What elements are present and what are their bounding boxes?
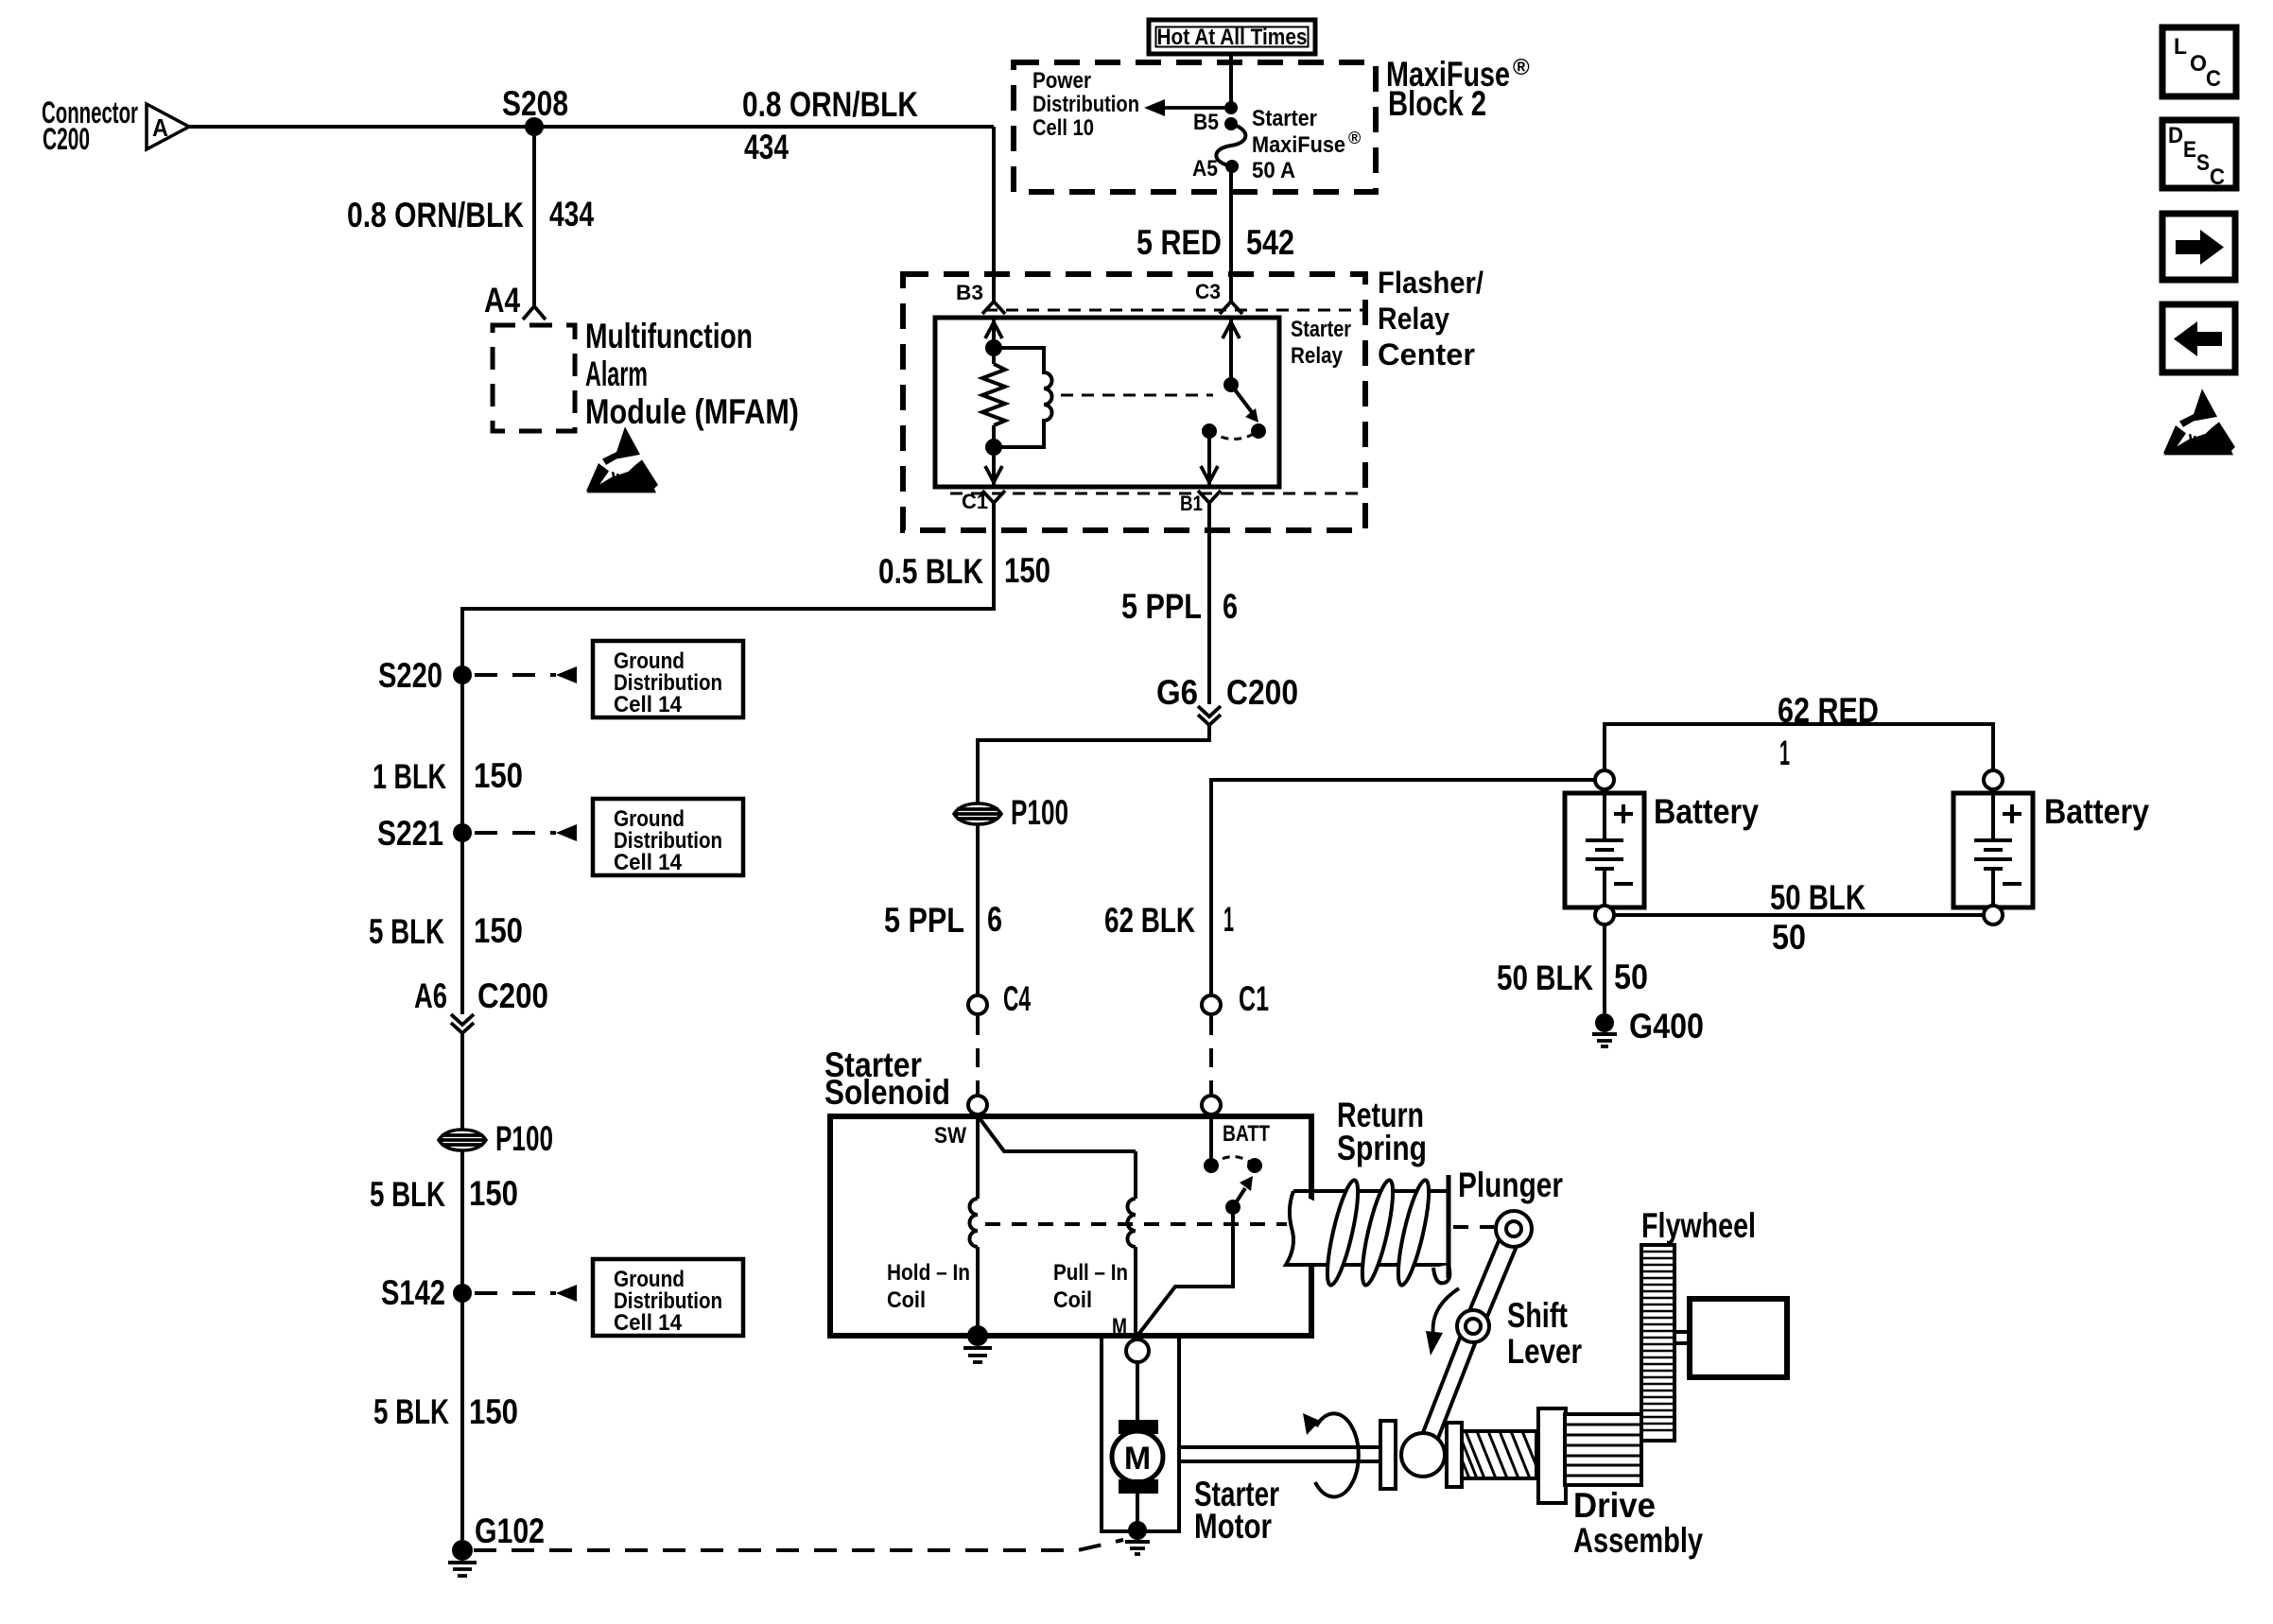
- svg-text:Motor: Motor: [1194, 1507, 1272, 1546]
- svg-text:BATT: BATT: [1223, 1121, 1270, 1147]
- svg-text:50 BLK: 50 BLK: [1770, 878, 1865, 917]
- svg-text:5 PPL: 5 PPL: [884, 901, 964, 940]
- svg-text:1: 1: [1779, 734, 1790, 772]
- svg-text:Starter: Starter: [1291, 317, 1351, 342]
- svg-text:Spring: Spring: [1337, 1129, 1427, 1167]
- svg-text:5 PPL: 5 PPL: [1121, 587, 1202, 626]
- svg-text:Cell 10: Cell 10: [1032, 115, 1094, 141]
- label 5 PPL 6 (below P100): [884, 900, 1002, 940]
- svg-text:C1: C1: [1239, 979, 1269, 1018]
- svg-text:0.8 ORN/BLK: 0.8 ORN/BLK: [742, 85, 918, 124]
- wire: A6 down to P100: [460, 1033, 464, 1540]
- svg-text:62 BLK: 62 BLK: [1104, 901, 1195, 940]
- connector chevron at A4: [523, 306, 546, 320]
- svg-text:Module (MFAM): Module (MFAM): [585, 392, 799, 431]
- svg-text:0.5 BLK: 0.5 BLK: [878, 552, 983, 591]
- label Starter MaxiFuse 50 A: [1252, 106, 1361, 183]
- label 50 BLK 50 (to G400): [1497, 958, 1648, 997]
- svg-text:Block 2: Block 2: [1388, 84, 1486, 123]
- svg-text:Relay: Relay: [1378, 302, 1449, 336]
- wire: C3 into relay switch: [1223, 318, 1240, 385]
- label Starter Motor: [1194, 1475, 1279, 1546]
- svg-text:S221: S221: [377, 814, 443, 853]
- wire: B3 drop from main wire: [992, 127, 996, 302]
- drive assembly pinion: [1565, 1414, 1641, 1485]
- svg-text:Pull – In: Pull – In: [1053, 1260, 1128, 1286]
- svg-text:G400: G400: [1629, 1007, 1704, 1045]
- relay coil winding: [994, 348, 1052, 447]
- wire: main horizontal 0.8 ORN/BLK: [189, 125, 994, 129]
- label MaxiFuse Block 2: [1386, 55, 1530, 123]
- dashed mechanical link through solenoid: [985, 1222, 1287, 1226]
- terminal M circle: [1126, 1339, 1149, 1362]
- svg-text:B3: B3: [956, 281, 983, 304]
- connector C200 triangle A: [147, 104, 189, 149]
- label 5 BLK 150 (above G102): [373, 1392, 518, 1431]
- svg-text:Flywheel: Flywheel: [1641, 1206, 1756, 1245]
- svg-text:5 BLK: 5 BLK: [369, 912, 444, 951]
- wire: S208 down to A4: [532, 127, 536, 306]
- plunger plate: [1447, 1175, 1451, 1278]
- svg-text:P100: P100: [495, 1119, 553, 1158]
- label 0.8 ORN/BLK 434 (down segment): [347, 195, 594, 234]
- svg-text:A: A: [152, 113, 168, 142]
- svg-text:434: 434: [549, 195, 594, 233]
- svg-text:150: 150: [469, 1174, 518, 1213]
- svg-text:C200: C200: [43, 122, 90, 156]
- label Flasher/ Relay Center: [1378, 266, 1484, 371]
- svg-text:150: 150: [1004, 551, 1050, 590]
- label 5 PPL 6 (above G6): [1121, 587, 1238, 626]
- splice S220: [378, 656, 472, 695]
- ground distribution cell 14 box (S220): [475, 641, 743, 717]
- pin B3 chevron: [956, 281, 1005, 314]
- wire: G6 down left to P100 and C4: [978, 725, 1209, 995]
- svg-text:P100: P100: [1011, 793, 1068, 832]
- svg-text:Alarm: Alarm: [585, 354, 648, 393]
- svg-text:Coil: Coil: [887, 1287, 926, 1313]
- svg-text:A4: A4: [484, 281, 520, 320]
- splice S221: [377, 814, 472, 853]
- terminal BATT: [1202, 1096, 1270, 1147]
- inline connector P100 (left): [439, 1119, 553, 1158]
- wire: C1 down and left to ground column: [462, 503, 994, 1014]
- label 5 RED 542: [1136, 223, 1294, 262]
- wire: 62 BLK from battery to C1: [1211, 780, 1595, 995]
- pin C1 chevron: [962, 490, 1005, 513]
- svg-text:Center: Center: [1378, 337, 1475, 371]
- wire: 62 RED top run: [1605, 724, 1993, 770]
- svg-text:Hold – In: Hold – In: [887, 1260, 970, 1286]
- wire: fuse output down to C3: [1229, 166, 1233, 302]
- icon DESC: [2162, 120, 2236, 190]
- label 5 BLK 150 (below P100): [370, 1174, 518, 1214]
- svg-text:M: M: [1124, 1441, 1151, 1477]
- engine block: [1690, 1299, 1787, 1377]
- flasher relay center dashed box: [903, 274, 1365, 530]
- svg-text:S142: S142: [381, 1273, 445, 1312]
- svg-text:MaxiFuse: MaxiFuse: [1252, 132, 1345, 158]
- svg-text:A6: A6: [414, 976, 447, 1015]
- label Starter Solenoid: [824, 1045, 950, 1112]
- connector C4: [968, 979, 1031, 1018]
- svg-text:C200: C200: [477, 976, 548, 1015]
- ground distribution cell 14 box (S221): [475, 799, 743, 875]
- svg-text:D: D: [2168, 123, 2183, 148]
- svg-text:C200: C200: [1226, 673, 1298, 712]
- inline connector P100 (middle): [954, 793, 1068, 832]
- svg-text:Hot At All Times: Hot At All Times: [1157, 25, 1308, 50]
- svg-text:®: ®: [1348, 129, 1361, 147]
- svg-text:50: 50: [1772, 918, 1806, 957]
- terminal SW: [934, 1096, 987, 1149]
- connector C1 (solenoid feed): [1202, 979, 1269, 1018]
- junction dot at tap: [1224, 101, 1238, 114]
- pin A5: [1192, 156, 1239, 181]
- shaft rotation arrow: [1303, 1413, 1359, 1496]
- drive assembly flange 2: [1447, 1423, 1462, 1487]
- label 0.8 ORN/BLK 434 (right segment): [742, 85, 918, 166]
- ground G400: [1592, 1007, 1704, 1046]
- svg-text:150: 150: [469, 1392, 518, 1431]
- svg-text:Battery: Battery: [2044, 792, 2149, 831]
- label Drive Assembly: [1573, 1486, 1703, 1560]
- svg-text:50 A: 50 A: [1252, 158, 1295, 183]
- svg-text:Distribution: Distribution: [1032, 92, 1139, 117]
- svg-text:434: 434: [744, 128, 789, 166]
- svg-text:L: L: [2174, 34, 2187, 60]
- wire: relay coil leg (B3 to C1): [985, 318, 1002, 487]
- ESD symbol below MFAM: [586, 426, 658, 492]
- svg-text:C4: C4: [1003, 979, 1031, 1018]
- multifunction alarm module MFAM dashed box: [493, 325, 575, 431]
- svg-text:150: 150: [474, 756, 523, 795]
- starter motor enclosure: [1102, 1336, 1179, 1531]
- svg-text:Coil: Coil: [1053, 1287, 1092, 1313]
- resistor inside relay: [982, 364, 1005, 425]
- icon arrow right: [2162, 214, 2235, 280]
- dashed mechanical link in relay: [1061, 394, 1213, 397]
- svg-text:50: 50: [1614, 958, 1648, 996]
- shift lever motion arrow: [1426, 1288, 1459, 1356]
- wire: hot feed down into maxifuse block: [1229, 54, 1233, 108]
- svg-text:Relay: Relay: [1291, 343, 1344, 369]
- shift lever: [1401, 1211, 1532, 1477]
- connector G6 C200 double chevron: [1156, 673, 1298, 725]
- drive assembly flange 1: [1380, 1421, 1396, 1489]
- svg-text:Starter: Starter: [1252, 106, 1317, 131]
- svg-text:E: E: [2183, 137, 2196, 163]
- svg-text:5 BLK: 5 BLK: [373, 1392, 449, 1431]
- starter motor ground: [1125, 1521, 1150, 1554]
- label Pull-In Coil: [1053, 1260, 1128, 1313]
- pull-in coil: [1128, 1151, 1136, 1336]
- svg-text:B5: B5: [1193, 110, 1219, 135]
- dashed wire C4 to solenoid SW: [976, 1016, 980, 1094]
- connector A6 C200 double chevron: [414, 976, 548, 1033]
- svg-text:Flasher/: Flasher/: [1378, 266, 1484, 300]
- svg-text:Shift: Shift: [1507, 1296, 1568, 1335]
- svg-text:5 RED: 5 RED: [1136, 223, 1222, 262]
- junction dot coil bottom: [985, 439, 1002, 456]
- svg-text:M: M: [1112, 1314, 1127, 1339]
- connector face dashed line bottom: [950, 492, 1365, 495]
- svg-text:O: O: [2190, 51, 2207, 77]
- flywheel ring gear: [1641, 1245, 1674, 1441]
- motor shaft: [1179, 1447, 1380, 1461]
- solenoid switch blade: [1137, 1176, 1253, 1336]
- svg-text:®: ®: [1513, 55, 1530, 80]
- wire: SW jog to pull-in coil: [980, 1118, 1136, 1151]
- drive assembly hub flange: [1538, 1408, 1566, 1503]
- splice S208: [525, 117, 544, 136]
- pin B1 chevron: [1180, 491, 1221, 515]
- connector C200 label: [42, 95, 138, 156]
- hold-in coil: [970, 1114, 979, 1336]
- icon arrow left: [2162, 304, 2235, 372]
- label 1 BLK 150: [373, 756, 523, 796]
- svg-text:542: 542: [1246, 223, 1294, 262]
- label Shift Lever: [1507, 1296, 1582, 1371]
- solenoid switch contacts: [1204, 1114, 1262, 1173]
- svg-text:0.8 ORN/BLK: 0.8 ORN/BLK: [347, 196, 524, 234]
- hot at all times box: [1149, 20, 1315, 54]
- hold-in coil ground: [963, 1325, 992, 1362]
- wire: tap to power distribution with arrow: [1144, 99, 1231, 116]
- junction dot coil top: [985, 339, 1002, 356]
- svg-text:S: S: [2196, 150, 2210, 176]
- svg-text:Battery: Battery: [1654, 792, 1759, 831]
- svg-text:S208: S208: [502, 84, 568, 123]
- label Return Spring: [1337, 1096, 1427, 1167]
- svg-text:C: C: [2210, 164, 2225, 190]
- relay switch blade: [1223, 377, 1258, 423]
- starter solenoid box: [830, 1116, 1311, 1336]
- svg-text:6: 6: [1223, 587, 1238, 626]
- icon ESD warning: [2163, 389, 2235, 455]
- fuse element starter maxifuse 50A: [1216, 124, 1245, 166]
- svg-text:1: 1: [1223, 900, 1234, 939]
- flywheel hub stub: [1674, 1332, 1690, 1343]
- return spring coils: [1321, 1178, 1449, 1287]
- svg-text:Solenoid: Solenoid: [824, 1073, 950, 1112]
- wire: dashed ground run from G102 to starter motor: [474, 1540, 1123, 1550]
- svg-text:Plunger: Plunger: [1458, 1166, 1563, 1204]
- pin C3 chevron: [1195, 280, 1242, 314]
- svg-text:Assembly: Assembly: [1573, 1521, 1703, 1560]
- svg-text:62 RED: 62 RED: [1778, 691, 1879, 730]
- svg-text:5 BLK: 5 BLK: [370, 1175, 445, 1214]
- label 50 BLK 50 (between batteries): [1770, 878, 1865, 957]
- svg-text:50 BLK: 50 BLK: [1497, 959, 1593, 997]
- relay switch contacts: [1202, 423, 1266, 440]
- battery left: [1565, 770, 1759, 924]
- svg-text:6: 6: [987, 900, 1002, 939]
- svg-text:A5: A5: [1192, 156, 1218, 181]
- wire: 50 BLK between batteries: [1614, 913, 1984, 917]
- battery right: [1953, 770, 2149, 924]
- svg-text:Lever: Lever: [1507, 1332, 1582, 1371]
- dashed wire C1 to solenoid BATT: [1209, 1016, 1213, 1094]
- svg-text:S220: S220: [378, 656, 442, 695]
- svg-text:B1: B1: [1180, 492, 1203, 515]
- label Hold-In Coil: [887, 1260, 970, 1313]
- svg-text:SW: SW: [934, 1123, 966, 1149]
- drive assembly helical spline: [1462, 1431, 1536, 1478]
- pin B5: [1193, 110, 1238, 135]
- svg-text:G6: G6: [1156, 673, 1198, 712]
- label 62 RED 1: [1778, 691, 1879, 772]
- label 62 BLK 1: [1104, 900, 1234, 940]
- svg-text:Multifunction: Multifunction: [585, 317, 753, 355]
- svg-text:Power: Power: [1032, 68, 1091, 94]
- svg-text:1 BLK: 1 BLK: [373, 757, 446, 796]
- svg-text:C: C: [2206, 66, 2221, 92]
- maxifuse block 2 dashed box: [1014, 62, 1376, 192]
- label Starter Relay: [1291, 317, 1351, 369]
- splice S142: [381, 1273, 472, 1312]
- wire: B1 down to G6: [1207, 503, 1211, 704]
- starter motor: [1112, 1362, 1163, 1530]
- ground distribution cell 14 box (S142): [475, 1259, 743, 1336]
- label Power Distribution Cell 10: [1032, 68, 1139, 141]
- wire: switch output to B1: [1201, 431, 1218, 487]
- connector face dashed line top: [985, 309, 1365, 312]
- icon LOC: [2162, 27, 2236, 96]
- wire: battery negative to G400: [1603, 924, 1606, 1013]
- dashed link plunger to shift lever: [1453, 1225, 1494, 1229]
- label 0.5 BLK 150: [878, 551, 1050, 591]
- svg-text:Drive: Drive: [1573, 1486, 1656, 1525]
- plunger body block: [1286, 1191, 1448, 1265]
- starter relay box: [935, 318, 1279, 487]
- svg-text:150: 150: [474, 911, 523, 950]
- label Multifunction Alarm Module (MFAM): [585, 317, 799, 431]
- label 5 BLK 150 (above A6): [369, 911, 523, 951]
- svg-text:C3: C3: [1195, 280, 1221, 303]
- svg-text:G102: G102: [475, 1512, 545, 1550]
- ground G102: [448, 1512, 545, 1576]
